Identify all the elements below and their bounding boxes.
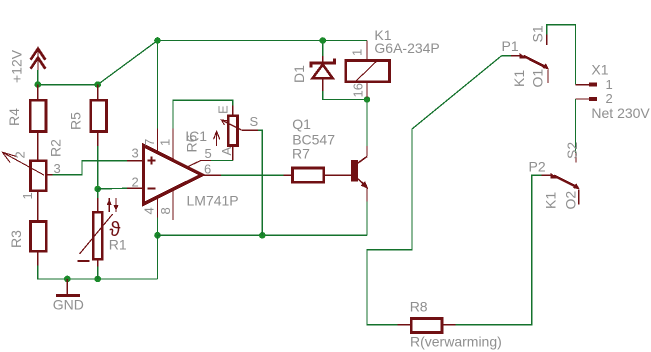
svg-text:K1: K1 (543, 192, 559, 209)
wire collector up (366, 100, 368, 147)
svg-text:O2: O2 (563, 191, 579, 210)
svg-text:S: S (250, 114, 259, 129)
svg-text:1: 1 (606, 77, 613, 92)
svg-text:P2: P2 (529, 159, 546, 175)
svg-text:R2: R2 (48, 139, 64, 157)
wire top-left horizontal (38, 84, 98, 86)
wire bottom rail horizontal (158, 234, 368, 236)
svg-text:1: 1 (350, 49, 365, 56)
wire P2 down to R8 right (456, 175, 542, 324)
svg-text:Q1: Q1 (292, 116, 311, 132)
wire to op-amp pin2 (98, 187, 127, 190)
svg-text:3: 3 (132, 145, 139, 160)
svg-text:5: 5 (205, 146, 212, 161)
transistor Q1 BC547 (292, 116, 368, 202)
wire X1 pin2 down to S2 (575, 99, 577, 153)
svg-text:R1: R1 (109, 237, 127, 253)
node dot GND tap (64, 276, 71, 283)
wire R6 S down to rail (258, 130, 262, 235)
wire rail to ground rail (157, 235, 159, 279)
svg-text:R(verwarming): R(verwarming) (410, 334, 502, 350)
supply +12V symbol (9, 49, 46, 83)
wire P1 stub (502, 55, 512, 57)
wire P1 long run to R8 (367, 56, 502, 325)
svg-text:R6: R6 (184, 134, 200, 152)
svg-text:6: 6 (204, 162, 211, 177)
node dot D1 top (319, 37, 326, 44)
svg-text:Net 230V: Net 230V (591, 105, 650, 121)
trimmer R6 (184, 105, 259, 160)
wire emitter down and to rail (366, 202, 368, 236)
node A dot (154, 37, 161, 44)
potentiometer R2 (3, 132, 64, 222)
wire op-amp pin5 to R6 A (211, 159, 233, 161)
resistor R4 (6, 85, 46, 132)
relay coil K1 G6A-234P (346, 27, 440, 98)
wire +12V stub (37, 70, 39, 85)
svg-text:3: 3 (54, 161, 61, 176)
svg-text:X1: X1 (591, 62, 608, 78)
wire diagonal to top node (98, 41, 158, 85)
wire R3 to ground rail (38, 266, 158, 279)
svg-text:R3: R3 (8, 230, 24, 248)
svg-text:2: 2 (13, 151, 28, 158)
svg-text:LM741P: LM741P (187, 193, 239, 209)
resistor R3 (8, 221, 46, 265)
svg-text:S2: S2 (564, 142, 580, 159)
wire op-amp pin4 to rail (157, 218, 159, 236)
wire op-amp output to R7 (221, 174, 284, 176)
wire S1 to X1 pin1 (547, 25, 576, 85)
svg-text:BC547: BC547 (292, 132, 335, 148)
node dot pin4 rail (154, 232, 161, 239)
svg-text:A: A (219, 147, 234, 156)
node dot at R5 top (94, 81, 101, 88)
svg-text:+12V: +12V (9, 49, 25, 83)
svg-text:K1: K1 (511, 70, 527, 87)
svg-text:R4: R4 (6, 108, 22, 126)
relay contact K1 O2/S2 (529, 142, 581, 210)
svg-text:S1: S1 (530, 25, 546, 42)
svg-text:G6A-234P: G6A-234P (374, 40, 439, 56)
node dot K1 pin16 (364, 96, 371, 103)
svg-text:R8: R8 (410, 299, 428, 315)
svg-text:GND: GND (53, 297, 84, 313)
svg-text:D1: D1 (291, 65, 307, 83)
wire top horizontal rail (158, 40, 368, 42)
svg-text:1: 1 (20, 192, 35, 199)
wire R5 to minus-input node (97, 146, 99, 189)
relay contact K1 O1/S1 (502, 25, 550, 87)
resistor R8 (398, 299, 502, 350)
wire R2 wiper to op-amp pin3 (53, 161, 128, 175)
svg-text:O1: O1 (530, 69, 546, 88)
svg-text:E: E (216, 105, 231, 114)
svg-text:16: 16 (351, 83, 366, 97)
wire op-amp pin1 to R6 E (173, 100, 233, 128)
svg-text:4: 4 (142, 207, 157, 214)
svg-text:7: 7 (142, 139, 157, 146)
svg-text:2: 2 (606, 91, 613, 106)
thermistor R1 (78, 189, 127, 279)
node dot R1 bottom (94, 276, 101, 283)
svg-text:R7: R7 (292, 146, 310, 162)
diode D1 (291, 41, 335, 92)
svg-text:2: 2 (132, 175, 139, 190)
op-amp IC1 LM741P (127, 128, 239, 220)
ground (53, 279, 84, 313)
wire node to op-amp pin7 (157, 41, 159, 129)
resistor R7 (284, 146, 351, 183)
resistor R5 (68, 85, 107, 146)
node dot S-net on rail (259, 232, 266, 239)
node dot minus input (94, 186, 101, 193)
svg-text:P1: P1 (502, 38, 519, 54)
svg-text:8: 8 (158, 207, 173, 214)
svg-text:1: 1 (158, 139, 173, 146)
wire D1 bottom to K1 pin16 node (323, 91, 367, 100)
node dot at +12V (35, 81, 42, 88)
svg-text:R5: R5 (68, 112, 84, 130)
connector X1 (576, 62, 651, 122)
